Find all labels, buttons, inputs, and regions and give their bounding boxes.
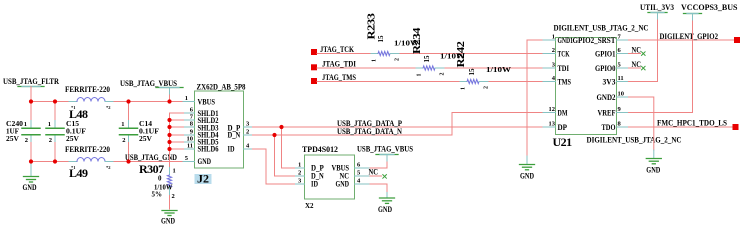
svg-text:R234: R234: [411, 27, 423, 54]
svg-text:USB_JTAG_VBUS: USB_JTAG_VBUS: [357, 145, 413, 154]
svg-text:USB_JTAG_DATA_N: USB_JTAG_DATA_N: [337, 127, 402, 136]
connector J2 body ZX62D_AB_5P8: [195, 83, 246, 169]
svg-text:TDO: TDO: [602, 123, 616, 132]
U21 left pin stubs: [543, 40, 556, 127]
svg-text:1: 1: [24, 121, 27, 128]
svg-text:11: 11: [187, 143, 193, 150]
svg-text:J2: J2: [197, 172, 209, 186]
svg-text:2: 2: [440, 73, 446, 76]
wire U21 GND1 down to ground: [527, 40, 543, 156]
port DIGILENT_GPIO2: [734, 37, 740, 43]
resistor R307: [139, 162, 176, 209]
ground below X2: [378, 193, 395, 215]
svg-text:2: 2: [246, 129, 249, 136]
svg-text:1: 1: [552, 34, 555, 41]
svg-text:GND: GND: [198, 157, 212, 166]
svg-text:6: 6: [190, 107, 194, 114]
svg-text:3V3: 3V3: [603, 78, 616, 87]
no-connect X2 pin5: [369, 168, 387, 179]
svg-text:UTIL_3V3: UTIL_3V3: [640, 3, 674, 12]
svg-text:8: 8: [190, 121, 194, 128]
svg-text:7: 7: [190, 114, 194, 121]
svg-text:2: 2: [395, 58, 401, 61]
capacitor C240: [6, 102, 40, 162]
U21 right pin stubs: [617, 40, 629, 127]
svg-text:GND: GND: [378, 205, 392, 214]
svg-text:2: 2: [49, 137, 52, 144]
svg-text:FMC_HPC1_TDO_LS: FMC_HPC1_TDO_LS: [657, 119, 727, 128]
svg-text:13: 13: [549, 121, 556, 128]
resistor R242 on TMS line: [317, 40, 543, 90]
capacitor C14: [120, 102, 160, 162]
reference label J2: [195, 172, 212, 186]
svg-text:25V: 25V: [139, 135, 152, 143]
svg-text:1: 1: [173, 168, 176, 175]
svg-text:6: 6: [618, 47, 622, 54]
ic X2 TPD4S012: [302, 145, 355, 210]
capacitor C15: [46, 102, 86, 162]
svg-text:TMS: TMS: [558, 78, 572, 87]
svg-text:R242: R242: [455, 40, 467, 67]
svg-text:D_N: D_N: [228, 131, 241, 140]
svg-text:ZX62D_AB_5P8: ZX62D_AB_5P8: [197, 83, 246, 92]
node UTIL_3V3 power symbol: [640, 3, 674, 19]
svg-text:2: 2: [122, 137, 125, 144]
resistor R234 on TDI line: [317, 27, 543, 77]
svg-text:JTAG_TMS: JTAG_TMS: [322, 73, 356, 82]
svg-text:GPIO2_SRST: GPIO2_SRST: [573, 36, 617, 45]
svg-text:3: 3: [246, 121, 250, 128]
svg-text:JTAG_TDI: JTAG_TDI: [322, 60, 356, 69]
junction dots data wires: [279, 125, 283, 129]
svg-text:25V: 25V: [66, 135, 79, 143]
svg-text:3: 3: [298, 178, 302, 185]
X2 left pin stubs 1,2,3: [296, 168, 305, 184]
svg-text:U21: U21: [553, 135, 573, 149]
X2 right pin stubs 6,5,4: [355, 168, 371, 184]
svg-text:15: 15: [423, 55, 431, 63]
wire J2 ID to TPD: [253, 149, 296, 184]
port FMC_HPC1_TDO_LS: [733, 124, 739, 130]
no-connect U21 pin 5: [629, 60, 646, 70]
svg-text:USB_JTAG_FLTR: USB_JTAG_FLTR: [3, 77, 59, 86]
J2 shield pins 6-11 stubs: [184, 113, 195, 149]
junction dots shield bus: [167, 118, 171, 151]
wire FMC_HPC1_TDO_LS from pin 8: [629, 126, 733, 128]
svg-text:VREF: VREF: [598, 109, 616, 118]
svg-text:VBUS: VBUS: [198, 98, 216, 107]
svg-text:NC: NC: [632, 46, 642, 55]
svg-text:ID: ID: [311, 180, 318, 189]
svg-text:JTAG_TCK: JTAG_TCK: [320, 45, 355, 54]
wire drop to TPD pin2: [275, 135, 296, 176]
svg-text:GND: GND: [336, 180, 350, 189]
svg-text:TPD4S012: TPD4S012: [302, 145, 338, 154]
svg-text:SHLD6: SHLD6: [198, 145, 219, 154]
svg-text:9: 9: [190, 129, 194, 136]
wire X2 VBUS pin6 up to power: [370, 161, 387, 168]
svg-text:2: 2: [552, 47, 555, 54]
svg-text:1: 1: [417, 74, 423, 77]
resistor R233 on TCK line: [317, 12, 543, 62]
svg-text:DM: DM: [558, 109, 568, 118]
svg-text:NC: NC: [369, 168, 379, 177]
svg-text:TCK: TCK: [558, 50, 571, 59]
port JTAG_TCK: [311, 49, 317, 55]
wire VREF pin 9 up to VCCOPS3_BUS: [629, 20, 693, 113]
svg-text:GND: GND: [520, 172, 534, 181]
svg-text:USB_JTAG_VBUS: USB_JTAG_VBUS: [120, 79, 177, 88]
svg-text:FERRITE-220: FERRITE-220: [65, 145, 110, 154]
svg-text:DIGILENT_USB_JTAG_2_NC: DIGILENT_USB_JTAG_2_NC: [554, 24, 649, 33]
svg-text:GPIO1: GPIO1: [595, 50, 616, 59]
svg-text:5: 5: [185, 155, 189, 162]
J2 pin 1 stub: [183, 101, 195, 103]
svg-text:1: 1: [185, 95, 188, 102]
svg-text:*2: *2: [106, 165, 111, 170]
svg-text:25V: 25V: [6, 135, 19, 143]
svg-text:R233: R233: [366, 12, 378, 39]
junction dots left section: [29, 99, 172, 163]
wire drop to TPD pin1: [282, 127, 296, 168]
svg-text:2: 2: [484, 86, 490, 89]
port JTAG_TMS: [311, 78, 317, 84]
svg-text:1: 1: [461, 87, 467, 90]
svg-text:1: 1: [298, 162, 301, 169]
svg-text:GPIO0: GPIO0: [595, 64, 616, 73]
node USB_JTAG_VBUS power symbol at X2: [357, 145, 413, 162]
wire bottom rail USB_JTAG_GND: [31, 161, 183, 163]
svg-text:2: 2: [172, 193, 175, 200]
svg-text:15: 15: [468, 68, 476, 76]
svg-text:1: 1: [121, 121, 124, 128]
svg-text:2: 2: [25, 137, 28, 144]
svg-text:4: 4: [246, 143, 250, 150]
svg-text:GND: GND: [646, 166, 660, 175]
wire GND2 pin 10 down to ground: [629, 97, 654, 150]
ground below U21 GND2: [646, 150, 661, 175]
wire top rail USB_JTAG_VBUS: [31, 101, 183, 103]
svg-text:6: 6: [357, 162, 361, 169]
svg-text:DP: DP: [558, 123, 568, 132]
svg-text:ID: ID: [228, 145, 235, 154]
svg-text:10: 10: [187, 136, 194, 143]
node USB_JTAG_FLTR power symbol: [3, 77, 59, 102]
svg-text:NC: NC: [632, 60, 642, 69]
ic U21 body: [556, 36, 617, 135]
svg-text:1: 1: [372, 59, 378, 62]
svg-text:11: 11: [618, 75, 624, 82]
svg-text:5: 5: [618, 62, 622, 69]
svg-text:L49: L49: [69, 166, 88, 180]
svg-text:GND: GND: [161, 217, 175, 226]
svg-text:7: 7: [618, 34, 622, 41]
svg-text:4: 4: [357, 178, 361, 185]
svg-text:1: 1: [48, 121, 51, 128]
no-connect U21 pin 6: [629, 46, 646, 56]
node VCCOPS3_BUS power symbol: [681, 3, 738, 20]
wire USB_JTAG_DATA_P: [253, 126, 544, 128]
svg-text:5%: 5%: [152, 191, 163, 199]
svg-text:5: 5: [357, 170, 361, 177]
svg-text:FERRITE-220: FERRITE-220: [65, 85, 110, 94]
J2 pin 5 stub: [183, 161, 195, 163]
svg-text:10: 10: [618, 91, 625, 98]
svg-text:12: 12: [549, 106, 556, 113]
J2 right pins 3,2,4 stubs: [244, 126, 253, 128]
ferrite bead L48: [65, 85, 113, 121]
port JTAG_TDI: [311, 64, 317, 70]
wire 3V3 pin 11 up to UTIL_3V3: [629, 19, 658, 82]
svg-text:GND2: GND2: [597, 93, 616, 102]
node USB_JTAG_VBUS power symbol: [120, 79, 183, 102]
ferrite bead L49: [65, 145, 113, 180]
svg-text:2: 2: [298, 170, 301, 177]
ground below R307: [161, 211, 177, 226]
svg-text:TDI: TDI: [558, 64, 570, 73]
svg-text:DIGILENT_USB_JTAG_2_NC: DIGILENT_USB_JTAG_2_NC: [587, 136, 682, 145]
wire X2 GND pin4 down: [370, 184, 387, 193]
wire USB_JTAG_DATA_N: [253, 113, 544, 136]
svg-text:8: 8: [618, 121, 622, 128]
wire shield bus: [170, 113, 184, 168]
svg-text:1/10W: 1/10W: [486, 66, 511, 74]
svg-text:*2: *2: [106, 105, 111, 110]
svg-text:VCCOPS3_BUS: VCCOPS3_BUS: [681, 3, 738, 12]
ground below U21 GND1: [520, 156, 535, 181]
ground below C240: [23, 162, 39, 193]
svg-text:9: 9: [618, 106, 622, 113]
wire DIGILENT_GPIO2 from pin 7: [629, 39, 735, 41]
svg-text:GND: GND: [23, 183, 37, 192]
svg-text:L48: L48: [69, 107, 88, 121]
svg-text:X2: X2: [305, 202, 314, 210]
svg-text:0: 0: [158, 175, 162, 183]
svg-text:15: 15: [377, 35, 385, 43]
svg-text:DIGILENT_GPIO2: DIGILENT_GPIO2: [660, 32, 719, 41]
svg-text:GND1: GND1: [558, 36, 574, 45]
